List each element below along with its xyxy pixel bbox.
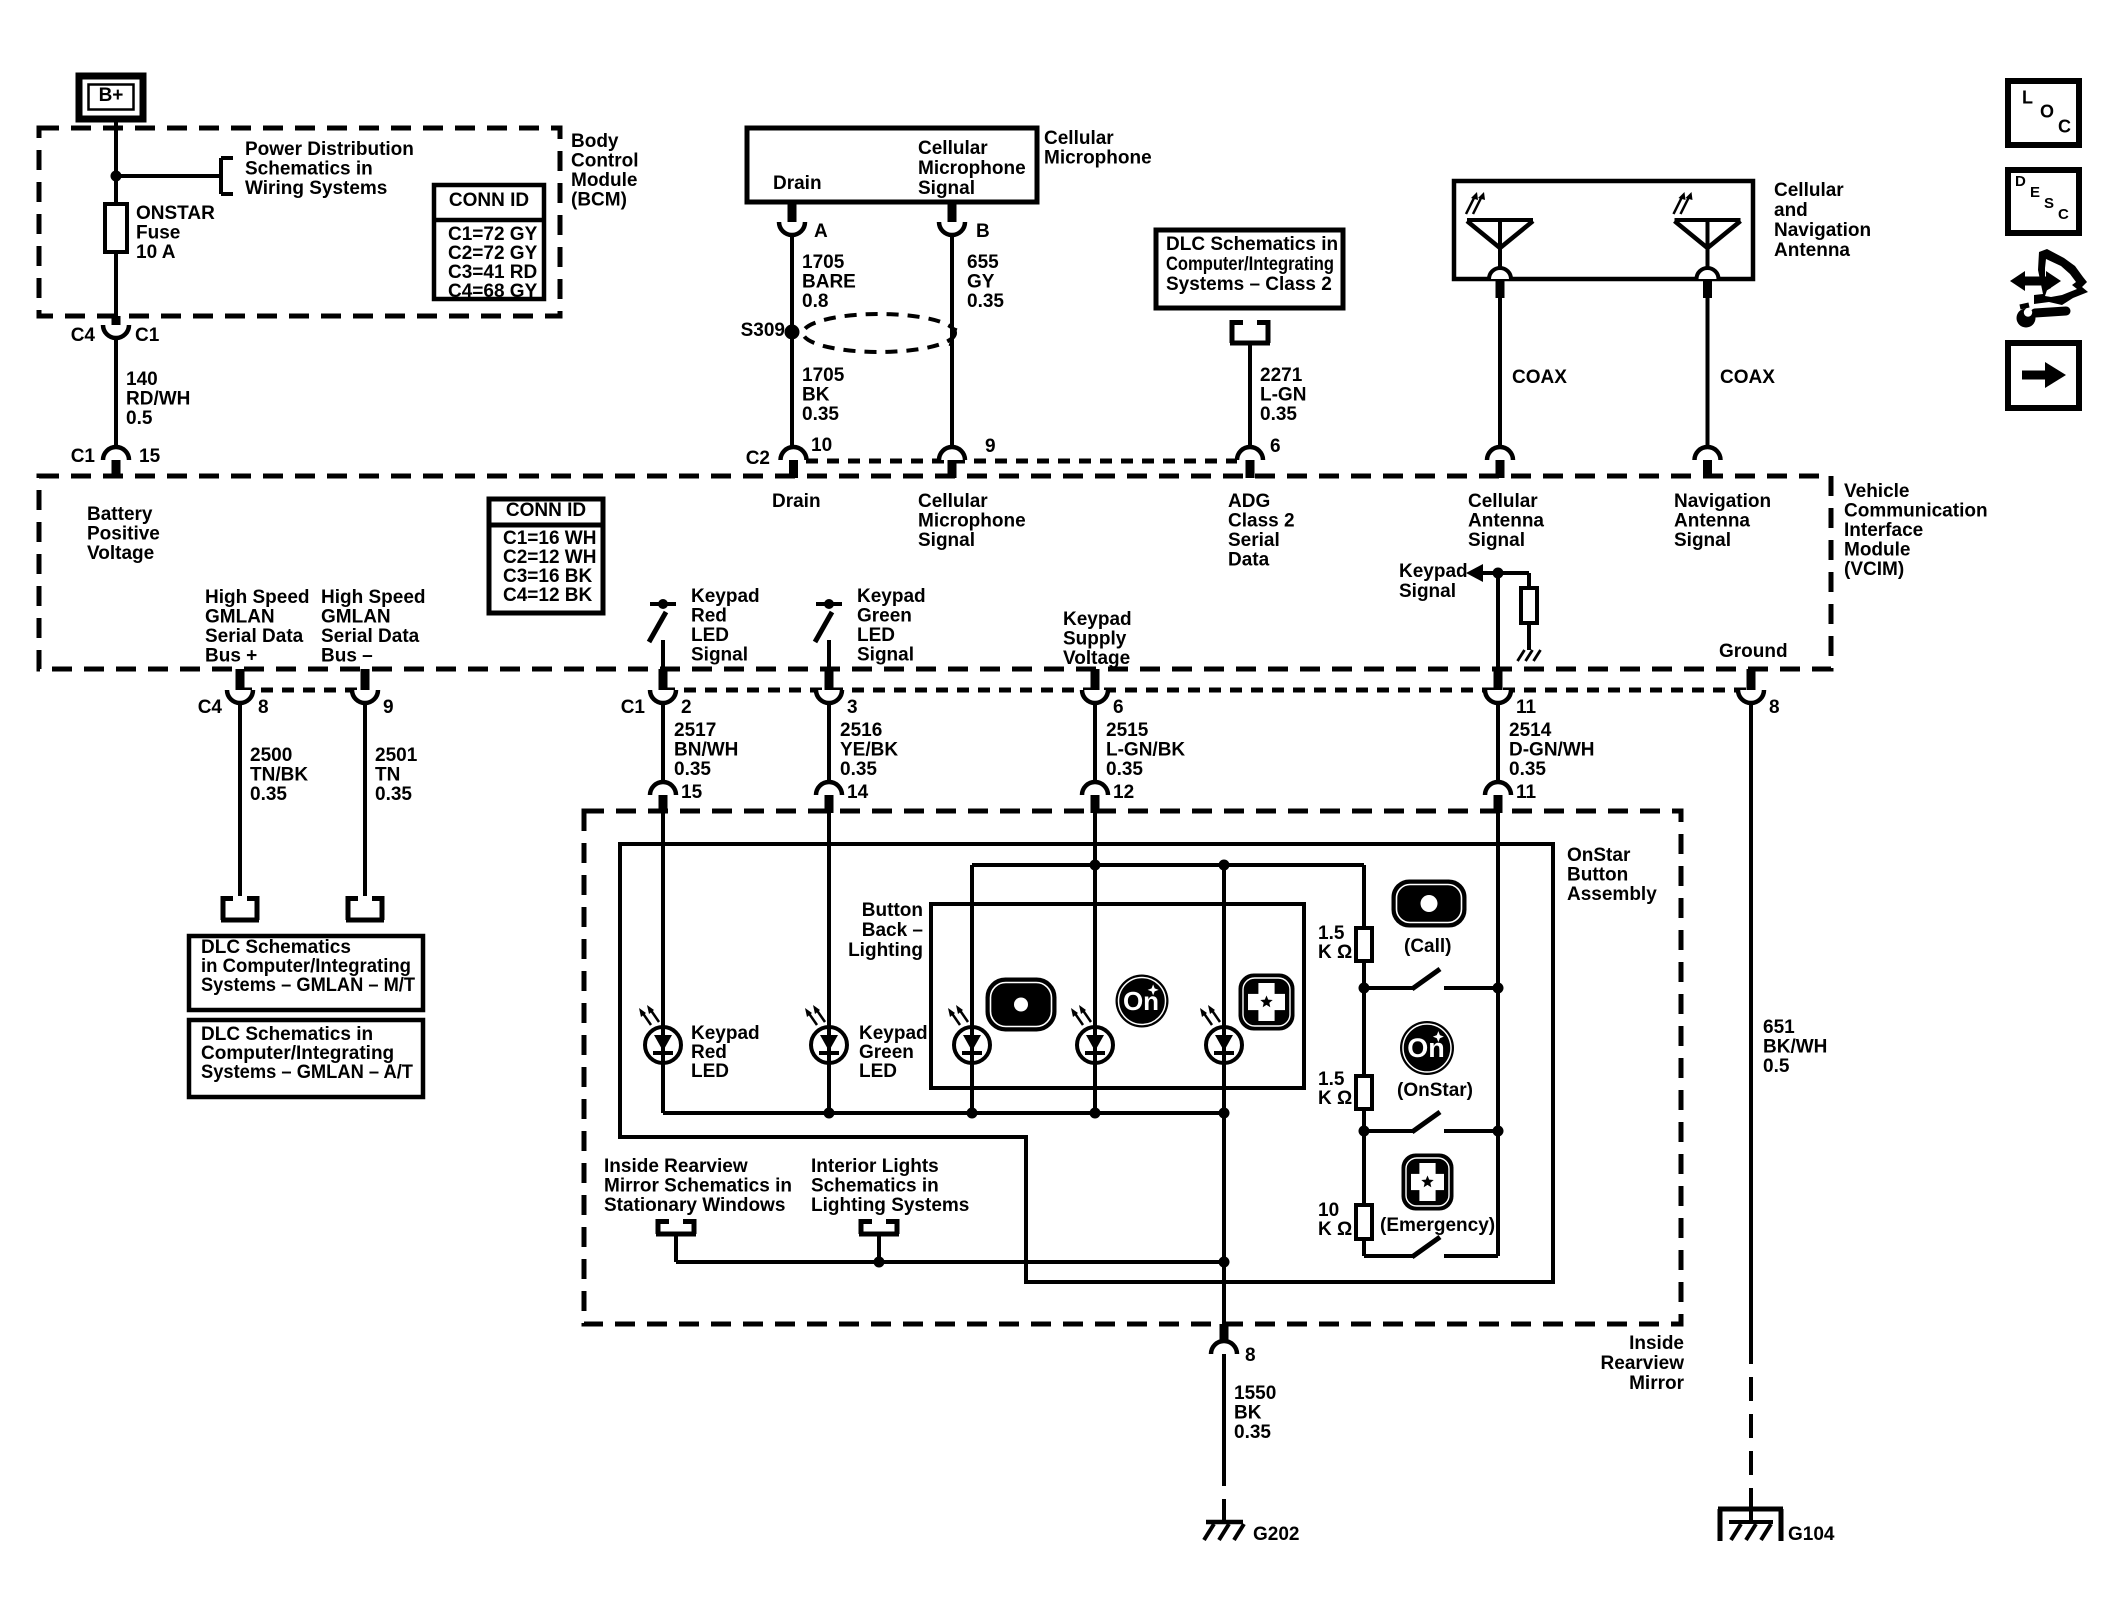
stub VCIM nav antenna [1703,460,1712,478]
connector mic pin A [779,222,805,235]
svg-text:651: 651 [1763,1017,1795,1038]
svg-text:Supply: Supply [1063,629,1127,650]
wire 651 BK/WH dashed [1749,1340,1753,1510]
LED backlight emergency [1206,1027,1242,1063]
svg-text:655: 655 [967,252,999,273]
LED keypad red [645,1027,681,1063]
wire R2 to switch2 [1362,1109,1366,1131]
svg-text:1.5: 1.5 [1318,923,1345,944]
stub VCIM pin6 [1246,460,1255,478]
svg-text:Computer/Integrating: Computer/Integrating [1166,254,1334,275]
svg-text:B+: B+ [99,85,124,106]
svg-text:COAX: COAX [1512,367,1567,388]
wire to internal resistor [1527,573,1531,588]
svg-text:11: 11 [1516,782,1537,803]
svg-text:Voltage: Voltage [1063,648,1130,669]
svg-text:G104: G104 [1788,1524,1835,1545]
stub VCIM bottom pin 6 [1091,669,1100,690]
svg-text:6: 6 [1270,436,1281,457]
shield tick on wire B [950,328,956,346]
ref box DLC GMLAN A/T [189,1020,423,1097]
svg-text:0.35: 0.35 [1260,404,1297,425]
resistor R 1.5K onstar [1356,1076,1372,1109]
svg-text:2516: 2516 [840,720,882,741]
svg-text:in Computer/Integrating: in Computer/Integrating [201,956,411,977]
node cathode call [967,1108,978,1119]
svg-text:C1=16 WH: C1=16 WH [503,528,596,549]
svg-text:Serial: Serial [1228,530,1280,551]
wire 2271 L-GN 0.35 [1248,343,1252,447]
svg-text:Back –: Back – [862,920,923,941]
icon box LOC [2008,81,2079,145]
svg-text:GY: GY [967,272,995,293]
svg-text:Assembly: Assembly [1567,884,1657,905]
svg-text:Navigation: Navigation [1774,220,1871,241]
svg-text:OnStar: OnStar [1567,845,1631,866]
svg-text:15: 15 [139,446,161,467]
svg-text:1705: 1705 [802,365,845,386]
svg-text:Cellular: Cellular [1468,491,1538,512]
svg-text:Interior Lights: Interior Lights [811,1156,939,1177]
svg-text:0.35: 0.35 [840,759,877,780]
svg-text:Serial Data: Serial Data [205,626,304,647]
svg-text:K Ω: K Ω [1318,1219,1352,1240]
svg-text:2271: 2271 [1260,365,1303,386]
svg-text:Power Distribution: Power Distribution [245,139,414,160]
connector C2 pin 9 [939,447,965,460]
svg-text:DLC Schematics in: DLC Schematics in [1166,234,1338,255]
svg-text:C: C [2058,206,2069,223]
stub VCIM bottom pin 9 [361,669,370,690]
stub VCIM pin10 [789,460,798,478]
wire 1550 BK solid [1222,1354,1226,1462]
antenna cellular symbol [1467,218,1533,222]
svg-text:Keypad: Keypad [857,586,926,607]
icon box DESC [2008,170,2079,233]
module box Inside Rearview Mirror dashed outline [584,811,1681,1324]
svg-text:B: B [976,221,990,242]
connector VCIM bottom pin 9 [352,690,378,703]
resistor R 10K emergency [1356,1205,1372,1239]
wire 1550 BK dashed [1222,1462,1226,1522]
switch call [1364,986,1414,990]
svg-text:2: 2 [681,697,692,718]
svg-text:Communication: Communication [1844,501,1988,522]
wire bracket2 down [877,1234,881,1262]
node cathode green [824,1108,835,1119]
wire chain to R2 [1362,988,1366,1076]
svg-text:(BCM): (BCM) [571,190,627,211]
svg-text:High Speed: High Speed [205,587,310,608]
svg-text:LED: LED [691,625,729,646]
svg-text:Microphone: Microphone [918,158,1026,179]
resistor internal keypad pullup [1521,588,1537,623]
connector VCIM cellular antenna [1487,447,1513,460]
svg-text:Data: Data [1228,550,1270,571]
connector VCIM bottom pin 6 [1082,690,1108,703]
svg-text:C3=41 RD: C3=41 RD [448,262,537,283]
svg-text:L-GN/BK: L-GN/BK [1106,740,1185,761]
svg-text:Keypad: Keypad [691,586,760,607]
wire 2514 [1496,703,1500,782]
svg-text:L: L [2022,87,2033,107]
svg-text:DLC Schematics: DLC Schematics [201,937,351,958]
svg-text:2515: 2515 [1106,720,1149,741]
svg-text:C: C [2058,116,2071,136]
svg-text:11: 11 [1516,697,1537,718]
switch onstar [1364,1129,1414,1133]
wire resistor to internal ground [1527,623,1531,650]
resistor R 1.5K call [1356,928,1372,961]
off-page bracket interior lights [859,1219,864,1234]
ground G104 cage [1718,1507,1783,1512]
dotted connector line C1 pins [663,688,1751,693]
stub VCIM bottom pin 3 [825,669,834,690]
svg-text:Stationary Windows: Stationary Windows [604,1195,785,1216]
connector mirror pin 14 [816,782,842,795]
svg-text:Signal: Signal [1468,530,1525,551]
connector C2 pin 10 [781,447,807,460]
svg-text:Systems – GMLAN – M/T: Systems – GMLAN – M/T [201,975,415,996]
svg-text:Class 2: Class 2 [1228,511,1295,532]
svg-text:C4=12 BK: C4=12 BK [503,585,593,606]
svg-text:Navigation: Navigation [1674,491,1771,512]
svg-text:Cellular: Cellular [918,491,988,512]
connector mic pin B [939,222,965,235]
icon compare arrows wrench [2034,249,2088,305]
icon emergency cross small [1240,975,1293,1029]
wire 2517 [661,703,665,782]
arrow keypad signal [1466,564,1483,582]
fuse ONSTAR 10A [105,204,127,252]
splice S309 [785,325,800,340]
svg-text:A: A [814,221,828,242]
svg-text:9: 9 [383,697,394,718]
svg-text:0.35: 0.35 [802,404,839,425]
connector VCIM bottom pin 8 [227,690,253,703]
svg-text:140: 140 [126,369,158,390]
svg-text:Lighting: Lighting [848,940,923,961]
wire 2501 TN 0.35 [363,703,367,896]
svg-text:ONSTAR: ONSTAR [136,203,215,224]
svg-text:and: and [1774,200,1808,221]
svg-text:Keypad: Keypad [859,1023,928,1044]
wire B+ to fuse [114,119,118,204]
node switch2 left [1359,1126,1370,1137]
svg-text:Schematics in: Schematics in [811,1176,939,1197]
svg-text:ADG: ADG [1228,491,1270,512]
svg-text:Antenna: Antenna [1674,511,1750,532]
svg-text:YE/BK: YE/BK [840,740,898,761]
connector VCIM nav antenna [1695,447,1721,460]
ground G104 [1729,1520,1773,1524]
svg-text:Battery: Battery [87,504,153,525]
svg-text:(Emergency): (Emergency) [1380,1215,1495,1236]
svg-text:BARE: BARE [802,272,856,293]
connector mirror pin 8 [1211,1341,1237,1354]
wire 651 into ground [1749,1505,1753,1522]
wire 651 BK/WH solid [1749,703,1753,1340]
node lighting feed at supply [1090,860,1101,871]
svg-text:Signal: Signal [857,645,914,666]
svg-text:Microphone: Microphone [918,511,1026,532]
svg-text:3: 3 [847,697,858,718]
svg-text:Red: Red [691,1042,727,1063]
stub VCIM cellular antenna [1496,460,1505,478]
svg-text:Vehicle: Vehicle [1844,481,1910,502]
ground G202 [1206,1520,1243,1525]
svg-text:0.35: 0.35 [375,784,412,805]
wire keypad signal to pin 11 [1496,573,1500,670]
stub VCIM bottom pin 8 [236,669,245,690]
node cathode emergency [1219,1108,1230,1119]
svg-text:RD/WH: RD/WH [126,389,190,410]
LED backlight call [954,1027,990,1063]
component box Button Back Lighting [931,904,1304,1088]
svg-text:6: 6 [1113,697,1124,718]
svg-text:10: 10 [1318,1200,1339,1221]
LED backlight onstar [1077,1027,1113,1063]
svg-text:(OnStar): (OnStar) [1397,1080,1473,1101]
wire 655 GY 0.35 [950,235,954,447]
power symbol B+ terminal [79,76,143,119]
connector mirror pin 15 [650,782,676,795]
wire keypad red LED vertical [661,813,665,1113]
node lighting feed at LED3 [1219,860,1230,871]
svg-text:BN/WH: BN/WH [674,740,738,761]
svg-text:1705: 1705 [802,252,845,273]
svg-text:Voltage: Voltage [87,543,154,564]
svg-text:Positive: Positive [87,524,160,545]
svg-text:2501: 2501 [375,745,418,766]
svg-text:C2=12 WH: C2=12 WH [503,547,596,568]
svg-text:Antenna: Antenna [1774,240,1850,261]
svg-text:LED: LED [857,625,895,646]
wire bracket1 down [674,1234,678,1262]
wire lighting feed horizontal [972,863,1364,867]
svg-text:Signal: Signal [691,645,748,666]
svg-text:G202: G202 [1253,1524,1299,1545]
switch emergency [1364,1254,1414,1258]
svg-text:9: 9 [985,436,996,457]
wire fuse to connector C4 [114,252,118,320]
module box BCM dashed outline [39,128,560,316]
svg-text:GMLAN: GMLAN [205,607,275,628]
svg-text:Body: Body [571,131,619,152]
svg-text:E: E [2030,184,2040,201]
svg-text:CONN ID: CONN ID [449,190,529,211]
node switch1 right [1493,983,1504,994]
off-page bracket power distribution [219,158,223,194]
svg-text:O: O [2040,101,2054,121]
svg-text:0.5: 0.5 [126,408,153,429]
svg-text:Rearview: Rearview [1601,1353,1685,1374]
svg-text:Microphone: Microphone [1044,148,1152,169]
node keypad signal [1493,568,1504,579]
off-page bracket GMLAN plus [221,896,226,920]
svg-text:S309: S309 [741,320,785,341]
antenna navigation symbol [1675,218,1741,222]
wire 140 RD/WH 0.5 [114,338,118,447]
svg-text:Button: Button [1567,865,1628,886]
wire LED3 to mirror pin8 [1222,1113,1226,1324]
stub mirror pin 14 [825,795,834,813]
svg-text:Green: Green [857,606,912,627]
svg-text:Module: Module [1844,540,1911,561]
svg-text:Keypad: Keypad [1399,561,1468,582]
svg-text:Inside Rearview: Inside Rearview [604,1156,748,1177]
svg-text:Mirror Schematics in: Mirror Schematics in [604,1176,792,1197]
svg-text:TN: TN [375,765,400,786]
svg-text:2500: 2500 [250,745,292,766]
svg-text:LED: LED [691,1061,729,1082]
wire LED cathode bus [663,1111,1224,1115]
icon emergency cross [1403,1155,1452,1209]
svg-text:S: S [2044,195,2054,212]
svg-text:1550: 1550 [1234,1383,1276,1404]
svg-text:Antenna: Antenna [1468,511,1544,532]
svg-text:14: 14 [847,782,869,803]
svg-text:C2: C2 [746,448,770,469]
stub mic pin B [948,202,957,222]
dotted connector line C4 pins [240,688,365,693]
svg-text:C1=72 GY: C1=72 GY [448,224,538,245]
svg-text:2517: 2517 [674,720,716,741]
connector C4/C1 inline [103,325,129,338]
wire 2500 TN/BK 0.35 [238,703,242,896]
switch keypad green LED signal [816,602,842,606]
svg-text:Signal: Signal [918,530,975,551]
svg-text:TN/BK: TN/BK [250,765,308,786]
svg-text:Drain: Drain [772,491,821,512]
svg-text:Ground: Ground [1719,641,1788,662]
node bottom at LED3 wire [1219,1257,1230,1268]
connector C1 pin 15 into VCIM [103,447,129,460]
svg-text:C1: C1 [135,325,160,346]
svg-text:Systems – GMLAN – A/T: Systems – GMLAN – A/T [201,1062,413,1083]
stub antenna nav out [1703,280,1712,298]
svg-text:Schematics in: Schematics in [245,159,373,180]
icon call button small [987,979,1055,1030]
svg-text:C4=68 GY: C4=68 GY [448,281,538,302]
table VCIM CONN ID [489,499,603,613]
svg-text:10 A: 10 A [136,242,176,263]
wire keypad supply vertical [1093,813,1097,1113]
svg-text:Button: Button [862,900,923,921]
switch keypad red LED signal [650,602,676,606]
table BCM CONN ID [434,185,544,299]
svg-text:8: 8 [258,697,269,718]
icon onstar logo small [1116,975,1169,1028]
svg-text:D: D [2015,173,2026,190]
svg-text:0.35: 0.35 [674,759,711,780]
svg-text:15: 15 [681,782,703,803]
stub VCIM bottom pin 2 [659,669,668,690]
svg-text:Interface: Interface [1844,520,1923,541]
svg-text:CONN ID: CONN ID [506,500,586,521]
svg-text:Signal: Signal [918,178,975,199]
svg-text:0.35: 0.35 [1106,759,1143,780]
stub mirror pin 15 [659,795,668,813]
wire lighting LED1 vertical [970,865,974,1113]
svg-text:K Ω: K Ω [1318,942,1352,963]
svg-text:Keypad: Keypad [691,1023,760,1044]
connector mirror pin 12 [1082,782,1108,795]
svg-text:Control: Control [571,151,639,172]
svg-text:Red: Red [691,606,727,627]
stub mirror pin 11 [1494,795,1503,813]
connector VCIM bottom pin 11 [1485,690,1511,703]
connector VCIM bottom pin 8 [1738,690,1764,703]
ref box DLC GMLAN M/T [189,936,423,1010]
stub VCIM pin15 [112,460,121,478]
svg-text:8: 8 [1245,1345,1256,1366]
component box OnStar Button Assembly stepped [620,844,1553,1282]
wire resistor chain top [1362,865,1366,928]
wire R3 to switch3 [1362,1239,1366,1256]
svg-text:0.8: 0.8 [802,291,828,312]
stub antenna cellular out [1496,280,1505,298]
svg-text:Cellular: Cellular [918,138,988,159]
svg-text:Cellular: Cellular [1774,180,1844,201]
node switch1 left [1359,983,1370,994]
svg-text:Computer/Integrating: Computer/Integrating [201,1043,394,1064]
svg-text:COAX: COAX [1720,367,1775,388]
wire bottom horizontal [676,1260,1224,1264]
svg-text:LED: LED [859,1061,897,1082]
wire lighting LED3 vertical [1222,865,1226,1113]
svg-text:(VCIM): (VCIM) [1844,559,1904,580]
icon call button [1393,881,1465,926]
off-page bracket mirror schematics [656,1219,661,1234]
icon onstar logo [1400,1021,1454,1075]
svg-text:Lighting Systems: Lighting Systems [811,1195,969,1216]
svg-text:C4: C4 [198,697,223,718]
svg-text:0.35: 0.35 [1234,1422,1271,1443]
svg-text:BK: BK [1234,1403,1262,1424]
wire keypad signal vertical to switches [1496,813,1500,1256]
svg-text:Inside: Inside [1629,1333,1684,1354]
svg-text:DLC Schematics in: DLC Schematics in [201,1024,373,1045]
connector VCIM bottom pin 2 [650,690,676,703]
wire 1705 BARE 0.8 [790,235,794,447]
svg-text:(Call): (Call) [1404,936,1452,957]
wire COAX navigation [1706,298,1710,447]
node switch2 right [1493,1126,1504,1137]
ground internal VCIM [1518,650,1525,661]
connector pin 6 [1237,447,1263,460]
stub BCM C4 out [112,316,121,325]
svg-text:Systems – Class 2: Systems – Class 2 [1166,274,1332,295]
connector VCIM bottom pin 3 [816,690,842,703]
stub VCIM pin9 [948,460,957,478]
stub mirror pin 12 [1091,795,1100,813]
module box VCIM dashed outline [39,476,1831,669]
node branch to power distribution note [111,171,122,182]
svg-text:C4: C4 [71,325,96,346]
svg-text:High Speed: High Speed [321,587,426,608]
wire branch to power distribution note [116,174,221,178]
node cathode onstar [1090,1108,1101,1119]
svg-text:10: 10 [811,435,832,456]
node interior lights junction [874,1257,885,1268]
svg-text:Keypad: Keypad [1063,609,1132,630]
svg-text:0.35: 0.35 [250,784,287,805]
svg-text:Bus –: Bus – [321,646,373,667]
svg-text:1.5: 1.5 [1318,1069,1345,1090]
svg-text:Drain: Drain [773,173,822,194]
off-page bracket DLC class2 [1230,320,1235,343]
